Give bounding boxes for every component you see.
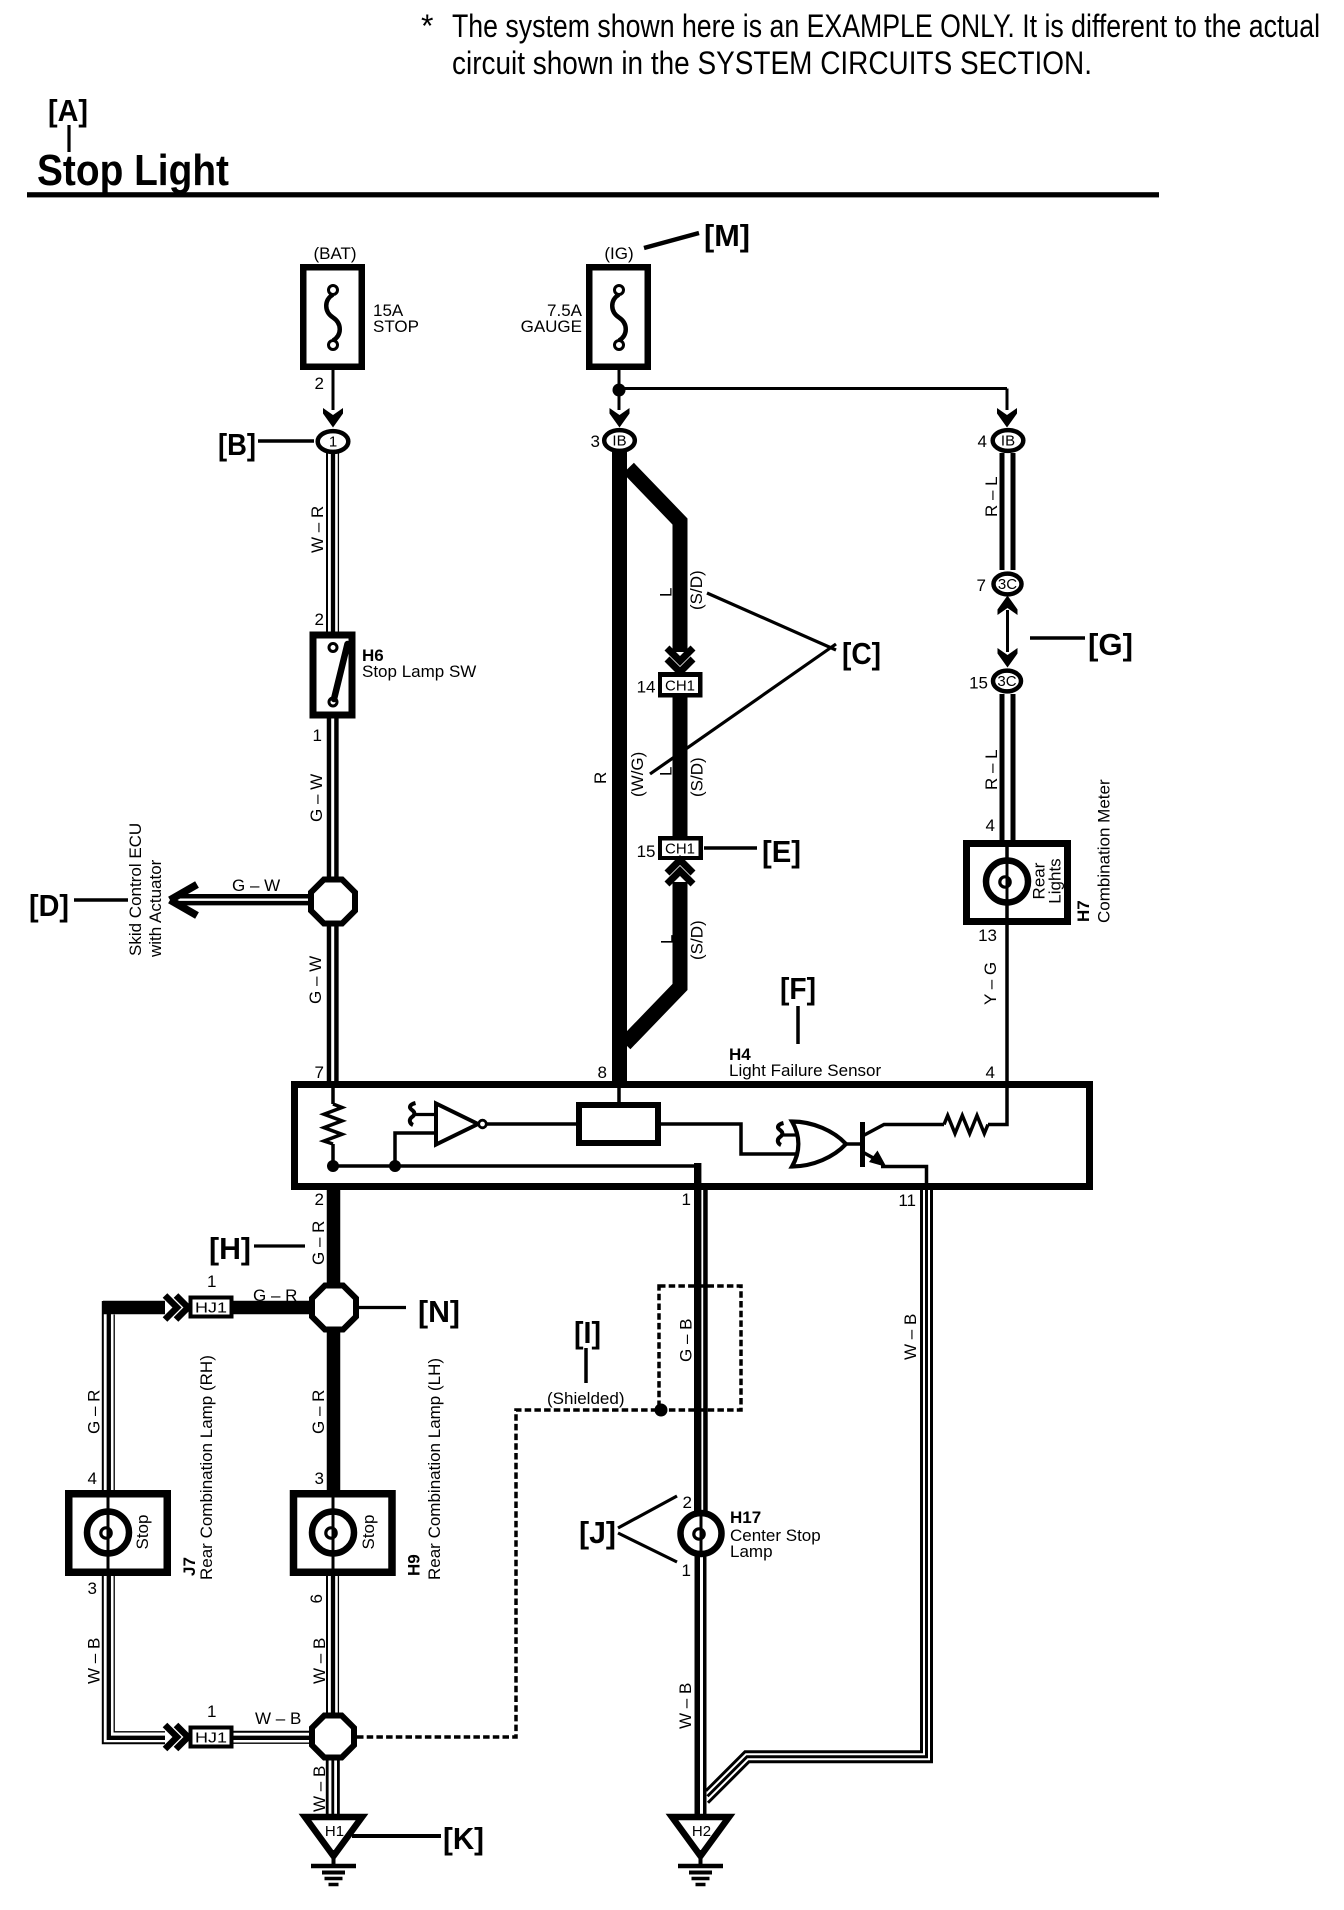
combination meter H7 box — [967, 844, 1068, 922]
pointer lines [J] — [618, 1496, 677, 1528]
svg-text:Skid Control ECU: Skid Control ECU — [126, 823, 145, 956]
svg-text:G – B: G – B — [677, 1319, 696, 1362]
wire emitter to pin 11 — [881, 1167, 927, 1185]
svg-text:W – B: W – B — [901, 1314, 920, 1360]
svg-text:R – L: R – L — [982, 749, 1001, 790]
svg-text:(BAT): (BAT) — [313, 244, 356, 263]
wire H4 pin 8 lead to comparator box — [617, 1087, 621, 1105]
OR gate U2 — [792, 1122, 846, 1167]
junction node octagon N — [312, 1286, 356, 1330]
connector HJ1 upper — [191, 1298, 232, 1317]
svg-text:W – B: W – B — [310, 1638, 329, 1684]
svg-text:[J]: [J] — [579, 1515, 616, 1550]
svg-text:IB: IB — [612, 433, 626, 450]
svg-text:Stop: Stop — [359, 1515, 378, 1550]
transistor collector — [863, 1125, 945, 1137]
svg-text:H1: H1 — [325, 1823, 344, 1840]
svg-text:4: 4 — [88, 1469, 97, 1488]
junction dot pin2 node — [327, 1160, 339, 1172]
svg-text:[D]: [D] — [29, 888, 69, 923]
svg-text:7: 7 — [315, 1063, 324, 1082]
svg-text:with Actuator: with Actuator — [146, 859, 165, 958]
light failure sensor H4 box — [295, 1085, 1090, 1187]
wire G-W branch to skid control ECU — [176, 894, 311, 898]
pointer line [E] — [704, 846, 757, 850]
chevrons into HJ1 lower — [165, 1725, 177, 1749]
wire through H9 bulb — [332, 1497, 335, 1569]
wire R-L from IB 4 to 3C 7 — [1000, 453, 1005, 570]
shield dashed box — [659, 1286, 741, 1410]
junction dot on shield — [655, 1404, 668, 1417]
svg-text:L: L — [657, 588, 676, 597]
pointer line [K] — [352, 1834, 441, 1838]
svg-text:W – B: W – B — [255, 1709, 301, 1728]
resistor R2 in H4 — [944, 1116, 988, 1134]
svg-text:Lamp: Lamp — [730, 1542, 773, 1561]
svg-text:1: 1 — [207, 1702, 216, 1721]
wire G-R triple vertical to J7 — [102, 1301, 104, 1492]
junction dot inverter input node — [389, 1160, 401, 1172]
svg-text:(S/D): (S/D) — [687, 570, 706, 610]
svg-text:14: 14 — [637, 678, 656, 697]
arrow down into 3C 15 — [998, 648, 1018, 668]
wire W-B from H9 to octagon junction — [326, 1572, 328, 1717]
svg-text:G – R: G – R — [309, 1390, 328, 1434]
svg-text:15: 15 — [969, 674, 988, 693]
svg-text:H7: H7 — [1074, 900, 1093, 922]
wire G-R from octagon to HJ1 — [233, 1301, 313, 1315]
svg-text:[M]: [M] — [704, 218, 750, 253]
arrow into connector B — [323, 408, 343, 428]
svg-text:IB: IB — [1001, 433, 1015, 450]
svg-text:[K]: [K] — [443, 1821, 484, 1856]
wire comparator to OR gate — [658, 1124, 802, 1154]
arrowhead to skid control ECU — [170, 885, 197, 901]
svg-text:circuit shown in the SYSTEM CI: circuit shown in the SYSTEM CIRCUITS SEC… — [452, 45, 1092, 81]
connector CH1 14 — [658, 672, 703, 698]
wire L between CH1 connectors — [673, 697, 688, 838]
feedback wire along bottom of H4 — [333, 1164, 698, 1168]
bulb Stop RH — [87, 1512, 129, 1554]
svg-text:H9: H9 — [405, 1554, 424, 1576]
wire through rear lights bulb — [1005, 847, 1009, 918]
svg-text:G – R: G – R — [309, 1221, 328, 1265]
svg-text:R – L: R – L — [982, 476, 1001, 517]
svg-text:(IG): (IG) — [604, 244, 633, 263]
svg-text:W – R: W – R — [308, 506, 327, 553]
wire Y-G from H7 to H4 pin 4 — [1005, 921, 1009, 1084]
wire junction to inverter input — [395, 1133, 436, 1163]
svg-text:[B]: [B] — [218, 427, 256, 462]
svg-text:[A]: [A] — [48, 93, 88, 128]
bulb Rear Lights — [986, 861, 1028, 903]
svg-text:1: 1 — [207, 1272, 216, 1291]
svg-text:The system shown here is an EX: The system shown here is an EXAMPLE ONLY… — [452, 8, 1320, 44]
connector HJ1 lower — [191, 1728, 232, 1747]
svg-text:[F]: [F] — [780, 971, 816, 1006]
svg-text:2: 2 — [315, 1190, 324, 1209]
svg-text:W – B: W – B — [676, 1683, 695, 1729]
arrow chevrons into CH1 14 — [667, 648, 693, 661]
connector IB pin 3 oval — [604, 430, 635, 451]
wire W-B triple from H4 pin 11 down and to H2 — [706, 1188, 922, 1791]
wire dashed shield from octagon to shield box — [357, 1410, 658, 1737]
pin label 2 area / wire IG fuse to junction dot — [618, 369, 621, 392]
svg-text:G – W: G – W — [306, 956, 325, 1004]
rear combination lamp LH H9 box — [294, 1494, 393, 1573]
pointer line [B] — [258, 439, 314, 443]
wire OR output to transistor base — [843, 1142, 861, 1146]
svg-text:[G]: [G] — [1088, 627, 1133, 662]
svg-text:1: 1 — [682, 1190, 691, 1209]
wire W-B from J7 down to corner — [103, 1572, 165, 1743]
svg-text:G – W: G – W — [232, 876, 280, 895]
pointer line [C] lower — [650, 644, 836, 774]
wire W-B from HJ1 to octagon — [233, 1731, 313, 1733]
title underline rule — [27, 192, 1159, 197]
pointer line [N] — [358, 1306, 406, 1309]
svg-text:6: 6 — [307, 1594, 326, 1603]
svg-text:[E]: [E] — [762, 834, 801, 869]
pointer line [H] — [254, 1244, 305, 1247]
svg-text:1: 1 — [313, 726, 322, 745]
ground H1 — [305, 1817, 362, 1856]
svg-text:3C: 3C — [997, 673, 1016, 690]
inverter U1 (NOT gate) — [436, 1104, 478, 1145]
svg-text:4: 4 — [978, 432, 987, 451]
pointer line [D] — [74, 898, 128, 902]
connector [B] oval 1 — [318, 431, 349, 452]
svg-text:Stop Lamp SW: Stop Lamp SW — [362, 662, 476, 681]
wire junction dot down to connector IB 3 — [618, 390, 621, 410]
svg-text:L: L — [658, 935, 677, 944]
svg-text:G – R: G – R — [85, 1390, 104, 1434]
svg-text:[N]: [N] — [418, 1294, 460, 1329]
svg-text:H17: H17 — [730, 1508, 761, 1527]
wire R thick from IB 3 to H4 pin 8 — [612, 452, 627, 1084]
svg-text:3C: 3C — [998, 576, 1017, 593]
wire R-L from 3C 15 to combination meter — [1000, 694, 1005, 841]
svg-text:7: 7 — [977, 576, 986, 595]
wire L from chevrons down and diagonal to R wire — [625, 882, 680, 1044]
svg-text:2: 2 — [315, 610, 324, 629]
wire L shielded branch upper diagonal — [629, 468, 681, 652]
svg-text:1: 1 — [329, 434, 337, 451]
wire G-R thick from octagon N to H9 — [327, 1329, 341, 1492]
wire G-R thick from H4 pin 2 to junction N — [327, 1188, 341, 1290]
squiggle mark at OR gate input — [778, 1123, 784, 1145]
pointer line from [A] to title — [67, 125, 70, 152]
svg-text:(S/D): (S/D) — [688, 920, 707, 960]
wire W-B from H17 to H2 ground — [695, 1552, 701, 1818]
switch H6 Stop Lamp SW — [313, 635, 352, 715]
svg-text:Stop Light: Stop Light — [37, 146, 229, 195]
svg-text:Rear Combination Lamp (RH): Rear Combination Lamp (RH) — [197, 1355, 216, 1580]
svg-text:15: 15 — [637, 842, 656, 861]
svg-text:HJ1: HJ1 — [195, 1301, 227, 1317]
wire W-R from connector B to stop lamp switch — [326, 453, 328, 633]
arrow chevrons into CH1 15 from below — [667, 871, 693, 884]
svg-text:1: 1 — [682, 1561, 691, 1580]
connector 3C pin 15 oval — [993, 671, 1021, 692]
svg-text:4: 4 — [986, 1063, 995, 1082]
svg-text:(S/D): (S/D) — [688, 757, 707, 797]
rear combination lamp RH J7 box — [69, 1494, 168, 1573]
transistor emitter with arrow — [863, 1152, 877, 1160]
svg-text:4: 4 — [986, 816, 995, 835]
connector CH1 15 — [658, 836, 703, 860]
wire G-W from junction to H4 pin 7 — [327, 923, 331, 1084]
wire W-B triple to H1 ground — [326, 1757, 329, 1818]
pointer line [C] upper — [707, 593, 836, 650]
wire junction to right branch — [619, 387, 1007, 390]
center stop lamp H17 bulb — [700, 1513, 703, 1554]
wire G-B shielded from H4 pin 1 to center stop lamp — [694, 1163, 701, 1515]
junction dot at IG output — [613, 384, 626, 397]
svg-text:[C]: [C] — [842, 636, 881, 671]
transistor Q1 base bar — [860, 1122, 865, 1167]
svg-text:(Shielded): (Shielded) — [547, 1389, 625, 1408]
svg-text:2: 2 — [315, 374, 324, 393]
svg-text:HJ1: HJ1 — [195, 1731, 227, 1747]
svg-text:Y – G: Y – G — [981, 962, 1000, 1005]
svg-text:8: 8 — [598, 1063, 607, 1082]
svg-text:3: 3 — [591, 432, 600, 451]
svg-text:13: 13 — [978, 926, 997, 945]
pointer line [I] — [584, 1348, 588, 1383]
svg-text:Light Failure Sensor: Light Failure Sensor — [729, 1061, 881, 1080]
svg-text:Stop: Stop — [133, 1515, 152, 1550]
connector IB pin 4 oval — [993, 430, 1024, 451]
pointer line from (IG) to [M] — [644, 233, 699, 248]
svg-text:*: * — [421, 8, 433, 44]
svg-text:CH1: CH1 — [665, 679, 695, 695]
svg-text:Combination Meter: Combination Meter — [1095, 779, 1114, 923]
svg-text:GAUGE: GAUGE — [521, 317, 582, 336]
svg-text:H2: H2 — [692, 1823, 711, 1840]
junction node octagon to skid control ECU — [311, 880, 355, 924]
wire inverter output to comparator box — [486, 1122, 576, 1126]
svg-text:3: 3 — [88, 1579, 97, 1598]
svg-text:Rear Combination Lamp (LH): Rear Combination Lamp (LH) — [425, 1358, 444, 1580]
wire G-R thick from corner to chevrons — [103, 1301, 165, 1315]
svg-text:[H]: [H] — [209, 1231, 251, 1266]
svg-text:W – B: W – B — [310, 1766, 329, 1812]
ground H2 — [672, 1817, 729, 1856]
svg-text:G – R: G – R — [253, 1286, 297, 1305]
squiggle mark at inverter input — [410, 1103, 416, 1125]
svg-text:STOP: STOP — [373, 317, 419, 336]
svg-text:11: 11 — [898, 1191, 916, 1210]
pointer line [F] — [796, 1006, 800, 1044]
wire between 3C connectors — [1006, 610, 1009, 652]
arrow into IB 4 — [997, 408, 1017, 428]
chevrons into HJ1 upper — [165, 1296, 177, 1320]
svg-text:R: R — [591, 772, 610, 784]
svg-text:G – W: G – W — [307, 774, 326, 822]
svg-text:2: 2 — [683, 1493, 692, 1512]
junction node octagon ground — [312, 1716, 354, 1758]
svg-text:[I]: [I] — [574, 1315, 601, 1350]
connector 3C pin 7 oval — [994, 574, 1022, 595]
wire G-W from H6 to junction — [327, 715, 331, 882]
svg-text:Lights: Lights — [1046, 858, 1065, 903]
arrow up into 3C 7 — [998, 596, 1018, 616]
bulb Stop LH — [312, 1512, 354, 1554]
arrow into IB 3 — [610, 408, 630, 428]
resistor R1 in H4 — [331, 1087, 335, 1104]
svg-text:3: 3 — [315, 1469, 324, 1488]
comparator box in H4 — [579, 1105, 658, 1143]
wire resistor to H4 pin 4 — [988, 1087, 1007, 1125]
wire through J7 bulb — [107, 1497, 110, 1569]
svg-text:(W/G): (W/G) — [628, 752, 647, 797]
pointer line [G] — [1030, 636, 1085, 640]
wire fuse STOP to connector B — [332, 370, 335, 410]
svg-text:W – B: W – B — [85, 1638, 104, 1684]
